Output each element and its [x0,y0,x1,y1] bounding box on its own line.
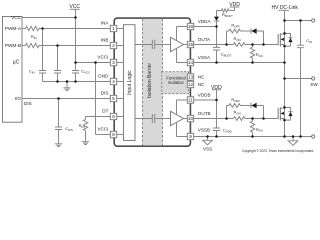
capacitor CDIS [55,127,62,130]
VDD power symbol A bar [230,6,239,8]
wire barrier signal A right [155,44,171,46]
driver A ground wire to pin 14 [177,48,188,62]
wire VDD-A stem [234,7,236,11]
resistor RON channel B [234,117,245,121]
svg-text:8: 8 [112,132,115,137]
wire RBOOT to bootstrap diode DBOOT [217,11,222,17]
transistor Q1 channel bar [279,33,281,46]
svg-text:VSS: VSS [203,147,212,152]
svg-text:CVDD: CVDD [223,127,232,133]
node GND ground junction [66,80,69,83]
node power ground junction [292,135,295,138]
svg-text:VCCI: VCCI [97,55,108,60]
svg-text:CBOOT: CBOOT [221,51,232,57]
resistor ROFF channel B [229,104,240,108]
svg-text:Copyright © 2023, Texas Instru: Copyright © 2023, Texas Instruments Inco… [242,149,313,153]
transistor Q2 body arrow [281,112,284,115]
node VSSB CVDD junction [215,135,218,138]
wire ROFF-B to diode D-B [240,105,251,107]
node VDDB junction [215,99,218,102]
wire VDD-A to RBOOT [229,10,235,12]
svg-text:10: 10 [188,116,194,121]
svg-text:VCCI: VCCI [97,127,108,132]
isolation barrier left dashed edge [142,19,144,145]
wire DT row to pin 6 [86,116,111,118]
wire CVDD bottom to VSSB [216,131,218,137]
wire barrier signal B right [155,118,171,120]
driver B amplifier triangle [171,111,184,125]
svg-text:SW: SW [310,82,318,87]
svg-text:Isolation: Isolation [168,80,184,85]
node OUTA branch right junction [262,43,265,46]
svg-text:NC: NC [198,82,205,87]
resistor RDT [83,119,87,130]
node DIS cap junction [57,97,60,100]
node VSSB ground junction [206,135,209,138]
wire OUTA pin 15 to RON-A [194,44,234,46]
svg-text:OUTB: OUTB [198,111,211,116]
capacitor CVCC [72,71,79,74]
driver B output wire to pin 10 [184,118,188,120]
bootstrap diode DBOOT cathode bar [214,20,219,22]
wire VCCI row to pin 3 [76,62,111,64]
svg-text:DIS: DIS [101,91,109,96]
svg-text:CIN: CIN [29,69,35,75]
barrier coupling capacitor A [152,40,154,49]
isolation barrier shaded band [143,19,163,145]
transistor Q2 body diode cathode bar [288,111,292,113]
wire barrier signal B left [135,118,152,120]
ground symbol VSS triangle [203,140,213,145]
node HV CIN junction [299,19,302,22]
wire CIN-HV bottom lead [300,48,302,137]
wire VSSA pin 14 row [194,62,285,64]
svg-text:4: 4 [112,79,115,84]
svg-text:3: 3 [112,60,115,65]
ground symbol VSS stem [207,137,209,141]
svg-text:VDD: VDD [211,85,222,91]
wire OUTB pin 10 to RON-B [194,118,234,120]
capacitor CIN channel B input [54,71,61,74]
wire RIN-B to INB pin 2 [39,45,111,47]
pin stub INA [117,28,124,30]
svg-text:I/O: I/O [15,96,22,101]
wire PWM-B to resistor RIN-B [22,45,26,47]
transistor Q2 channel bar [279,107,281,120]
transistor Q2 body diode triangle [288,112,292,116]
wire diode D-A to right riser [257,31,264,45]
node SW junction [283,77,286,80]
resistor RGS channel A top lead [252,45,254,48]
svg-text:DIS: DIS [24,101,32,106]
capacitor CIN channel A input [39,71,46,74]
svg-text:VCC: VCC [69,4,80,10]
diode D-B cathode bar [250,103,252,108]
wire SW rail [285,78,312,80]
wire barrier signal A left [135,44,152,46]
VDD power symbol B bar [212,89,221,91]
svg-text:CDIS: CDIS [65,126,73,132]
node GND CVCC junction [74,80,77,83]
svg-text:VSSB: VSSB [198,128,210,133]
wire VSSB pin 9 bottom rail [194,136,312,138]
capacitor CIN DC link [297,45,304,48]
transistor Q2 stubs [280,108,284,118]
node VCC-VCCI junction [74,61,77,64]
node VCCI link junction [94,61,97,64]
ground symbol below RDT [82,142,89,145]
svg-text:INA: INA [101,21,110,26]
wire DIS cap branch [58,99,60,128]
transistor Q1 gate bar [277,34,279,45]
svg-text:PWM-B: PWM-B [5,43,21,48]
node OUTA RGS junction [251,43,254,46]
svg-text:CIN: CIN [306,38,312,44]
resistor ROFF channel A [229,29,240,33]
wire uC VCC to VCC rail [22,17,76,19]
wire CIN-A bottom to GND net [42,73,44,82]
pin 2 box [110,42,116,48]
terminal HV DC-Link [312,19,315,22]
VCC power symbol bar [70,8,80,10]
transistor Q1 body diode cathode bar [288,37,292,39]
pin 15 box [187,41,193,47]
wire VCC rail vertical [75,9,77,70]
wire CVCC bottom to GND net [75,73,77,82]
svg-text:RIN: RIN [31,34,37,40]
node HV drain junction [283,19,286,22]
svg-text:RON: RON [234,36,241,42]
node VDDA junction [215,25,218,28]
resistor RON channel A [234,43,245,47]
wire RGS-B bottom to VSSB [252,132,254,136]
driver A supply wire to pin 16 [177,27,188,41]
wire VCCI link vertical [95,63,97,135]
diode D-B triangle [251,103,256,108]
svg-text:9: 9 [189,134,192,139]
wire VDD-B stem [216,90,218,100]
wire HV DC-Link stem [284,10,286,20]
microcontroller uC block [3,17,23,123]
pin 8 box [110,131,116,137]
wire RON-B to gate of Q2 [245,118,278,120]
resistor RIN (channel A) [26,26,39,30]
wire ROFF-A to diode D-A [240,30,251,32]
capacitor CVDD [213,128,220,131]
transistor Q2 gate bar [277,108,279,119]
pin stub DIS5 [117,98,124,100]
svg-text:VDD: VDD [229,2,240,8]
functional isolation shaded box [162,72,189,94]
resistor RIN (channel B) [26,43,39,47]
svg-text:14: 14 [188,60,194,65]
pin 5 box [110,95,116,101]
pin 13 box [187,74,193,80]
driver B ground wire to pin 9 [177,122,188,136]
pin stub INB [117,45,124,47]
node INA cap junction [41,27,44,30]
pin 1 box [110,25,116,31]
pin stub DT6 [117,116,124,118]
pin 14 box [187,59,193,65]
node OUTB RGS junction [251,117,254,120]
svg-text:1: 1 [112,26,115,31]
wire CBOOT bottom to VSSA [216,50,218,63]
driver A output wire to pin 15 [184,44,188,46]
svg-text:5: 5 [112,96,115,101]
wire DBOOT cathode to VDDA node [216,21,218,26]
wire RIN-A to INA pin 1 [39,28,111,30]
transistor Q1 stubs [280,34,284,44]
terminal power ground [312,135,315,138]
svg-text:RON: RON [234,110,241,116]
wire VCCI link to pin 8 [96,134,111,136]
transistor Q1 body diode loop [285,33,291,46]
HV DC-Link power symbol bar [279,9,290,11]
svg-text:16: 16 [188,24,194,29]
input logic block [124,25,136,141]
wire PWM-A to resistor RIN-A [22,28,26,30]
wire CIN-HV top lead [300,21,302,46]
pin stub VCCI3 [117,62,124,64]
node Q2 source loop junction [283,119,286,122]
diode D-A triangle [251,28,256,33]
svg-text:6: 6 [112,114,115,119]
svg-text:12: 12 [188,82,194,87]
node CIN bottom junction [299,135,302,138]
wire RON-A to gate of Q1 [245,44,278,46]
diode D-A cathode bar [250,28,252,33]
capacitor CBOOT [213,47,220,50]
node VSSA CBOOT junction [215,61,218,64]
ground symbol power triangle [288,141,298,146]
svg-text:RBOOT: RBOOT [222,12,233,18]
resistor RGS channel B [250,121,254,132]
wire RGS-A bottom to VSSA [252,58,254,62]
svg-text:DT: DT [102,109,108,114]
driver A amplifier triangle [171,37,184,51]
svg-text:µC: µC [13,60,20,66]
svg-text:ROFF: ROFF [231,97,240,103]
pin stub VCCI8 [117,134,124,136]
svg-text:2: 2 [112,43,115,48]
svg-text:RGS: RGS [256,127,263,133]
wire VDDA node down to CBOOT [216,27,218,48]
bootstrap diode DBOOT triangle [214,17,219,21]
pin 9 box [187,133,193,139]
svg-text:VCC: VCC [11,15,22,20]
resistor RGS channel B top lead [252,119,254,122]
node Q1 source loop junction [283,45,286,48]
svg-text:HV DC-Link: HV DC-Link [271,5,298,11]
ground symbol power stem [292,137,294,141]
svg-text:RGS: RGS [256,52,263,58]
svg-text:Isolation Barrier: Isolation Barrier [147,63,153,98]
pin 10 box [187,115,193,121]
svg-text:15: 15 [188,42,194,47]
svg-text:GND: GND [98,74,109,79]
wire RDT bottom to ground [85,131,87,142]
wire ROFF-B branch left riser [227,106,230,119]
wire diode D-B to right riser [257,106,264,119]
node OUTA branch left junction [225,43,228,46]
wire VDDB node down to CVDD [216,100,218,128]
node GND CIN-B junction [56,80,59,83]
svg-text:VDDA: VDDA [198,19,212,24]
wire DT down to RDT [85,117,87,120]
node Q2 drain loop junction [283,106,286,109]
svg-text:PWM-A: PWM-A [5,26,22,31]
wire VDDA pin 16 to bootstrap node [194,26,217,28]
wire uC I/O DIS net to pin 5 [22,98,111,100]
svg-text:13: 13 [188,75,194,80]
wire CDIS bottom to ground [58,130,60,144]
isolation barrier right dashed edge [162,19,164,145]
terminal SW [312,77,315,80]
driver B supply wire to pin 11 [177,100,188,115]
svg-text:11: 11 [188,98,193,103]
node OUTB branch left junction [225,117,228,120]
wire half-bridge column Q1 drain to Q2 source [284,21,286,137]
transistor Q1 body diode triangle [288,38,292,42]
node OUTB branch right junction [262,117,265,120]
resistor RGS channel A [250,47,254,58]
transistor Q2 body diode loop [285,107,291,120]
node VSSA RGS junction [251,61,254,64]
pin 11 box [187,97,193,103]
ground symbol GND net [63,82,70,91]
resistor RBOOT [221,9,228,13]
node VSSB source junction [283,135,286,138]
svg-text:OUTA: OUTA [198,37,211,42]
node VSSB RGS junction [251,135,254,138]
transistor Q1 body arrow [281,38,284,41]
wire INA bypass cap branch [42,29,44,71]
pin 4 box [110,78,116,84]
node VSSA source junction [283,61,286,64]
wire INB bypass cap branch [57,46,59,71]
pin 6 box [110,113,116,119]
svg-text:VSSA: VSSA [198,55,211,60]
barrier coupling capacitor B [152,114,154,123]
svg-text:ROFF: ROFF [231,23,240,29]
pin 12 box [187,81,193,87]
wire CIN-B bottom to GND net [57,73,59,82]
ic U1 package outline [114,18,190,146]
svg-text:VDDB: VDDB [198,92,211,97]
svg-text:CVCC: CVCC [81,69,90,75]
wire VDDB pin 11 to VDD node [194,99,217,101]
wire GND row to pin 4 [43,81,111,83]
wire ROFF-A branch left riser [227,31,230,45]
ground symbol below CDIS [55,144,62,147]
svg-text:INB: INB [101,38,109,43]
svg-text:NC: NC [198,75,205,80]
node Q1 drain loop junction [283,32,286,35]
svg-text:Input Logic: Input Logic [127,70,133,95]
wire HV DC-Link rail [285,20,312,22]
node uC VCC junction [74,16,77,19]
pin 16 box [187,23,193,29]
pin 3 box [110,59,116,65]
node INB cap junction [56,44,59,47]
pin stub GND4 [117,81,124,83]
